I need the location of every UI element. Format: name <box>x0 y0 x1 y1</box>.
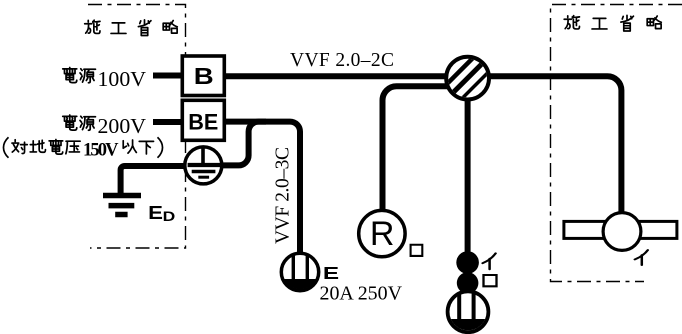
breaker B <box>182 56 224 96</box>
svg-text:VVF 2.0–2C: VVF 2.0–2C <box>290 50 394 71</box>
svg-text:B: B <box>194 64 214 89</box>
main wire: breaker B to junction box to right drop (VVF 2.0-2C run) <box>224 76 621 213</box>
label イ (at luminaire) <box>635 250 648 265</box>
room air conditioner R <box>359 210 405 256</box>
svg-text:150V: 150V <box>83 141 119 161</box>
earth terminal (circle) <box>185 147 222 184</box>
wire: earth terminal to ground electrode ED <box>121 166 200 193</box>
receptacle イ (bottom, circle with bars, bottom filled) <box>448 291 489 332</box>
label イ (at switches) <box>483 253 496 269</box>
switch イ <box>456 251 479 274</box>
wire: earth terminal link joining VVF 2.0-3C run <box>222 122 266 166</box>
junction box (hatched circle) <box>440 51 495 106</box>
svg-text:R: R <box>370 215 395 253</box>
switch ロ <box>457 272 479 294</box>
label ロ (at switches) <box>484 275 497 286</box>
svg-text:200V: 200V <box>98 114 147 138</box>
svg-text:BE: BE <box>188 110 218 135</box>
receptacle 20A 250V E (circle with bars, bottom filled) <box>281 253 318 290</box>
dashed box (left, 施工省略 area) <box>88 5 186 249</box>
wire: junction box to room air conditioner R <box>383 86 451 210</box>
earth symbol inside terminal <box>188 148 220 177</box>
breaker BE <box>182 100 224 140</box>
wire: BE output run to 20A receptacle (VVF 2.0-3C drop) <box>224 122 300 254</box>
label ED <box>148 203 175 224</box>
wire from 電源200V to breaker BE <box>153 119 182 125</box>
wire from 電源100V to breaker B <box>153 73 182 79</box>
ground electrode symbol <box>103 196 141 215</box>
label ロ (at R) <box>411 245 423 256</box>
dashed box (right, 施工省略 area) <box>551 5 682 282</box>
wire: junction box down to switches <box>465 95 471 258</box>
svg-text:100V: 100V <box>98 67 147 91</box>
label 施工省略 (left) <box>85 20 178 36</box>
label 電源100V <box>63 67 146 91</box>
svg-text:20A 250V: 20A 250V <box>320 284 403 305</box>
svg-text:VVF 2.0–3C: VVF 2.0–3C <box>273 147 294 244</box>
fluorescent luminaire イ (right) <box>564 213 677 251</box>
svg-text:D: D <box>163 210 176 225</box>
label （対地電圧150V以下） <box>3 137 162 160</box>
svg-text:E: E <box>323 263 339 283</box>
label 施工省略 (right) <box>564 15 661 31</box>
label 電源200V <box>63 114 146 138</box>
svg-text:E: E <box>148 203 163 223</box>
